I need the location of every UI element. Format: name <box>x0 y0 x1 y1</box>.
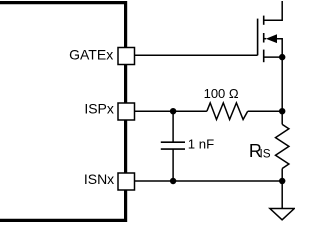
svg-text:IS: IS <box>260 147 271 161</box>
transistor Q1 external FET <box>258 16 283 63</box>
ground <box>270 209 294 220</box>
label RIS <box>249 141 271 161</box>
capacitor C1 1 nF <box>161 111 185 181</box>
wire drain top <box>264 1 283 20</box>
svg-text:100 Ω: 100 Ω <box>204 86 239 101</box>
svg-text:GATEx: GATEx <box>69 46 113 62</box>
wire source to sense rail <box>281 57 283 208</box>
label 100 ohm <box>204 86 239 101</box>
resistor 100 ohm <box>207 103 248 120</box>
label GATEx <box>69 46 113 62</box>
svg-text:ISPx: ISPx <box>84 101 114 117</box>
node source junction <box>279 54 285 60</box>
svg-text:ISNx: ISNx <box>84 171 114 187</box>
wire ISNx rail <box>135 180 283 182</box>
pin GATEx <box>118 48 135 65</box>
pin ISPx <box>118 103 135 120</box>
resistor RIS sense <box>276 124 289 168</box>
wire ISPx rail <box>135 110 283 112</box>
label 1 nF <box>188 136 214 151</box>
IC outline (device boundary) <box>0 3 126 221</box>
label ISPx <box>84 101 114 117</box>
pin ISNx <box>118 173 135 190</box>
node capacitor bottom junction <box>170 178 176 184</box>
label ISNx <box>84 171 114 187</box>
node ISNx junction <box>279 178 285 184</box>
node resistor right junction <box>279 108 285 114</box>
svg-text:1 nF: 1 nF <box>188 136 214 151</box>
node ISPx junction <box>170 108 176 114</box>
wire GATEx to MOSFET gate <box>135 54 258 56</box>
